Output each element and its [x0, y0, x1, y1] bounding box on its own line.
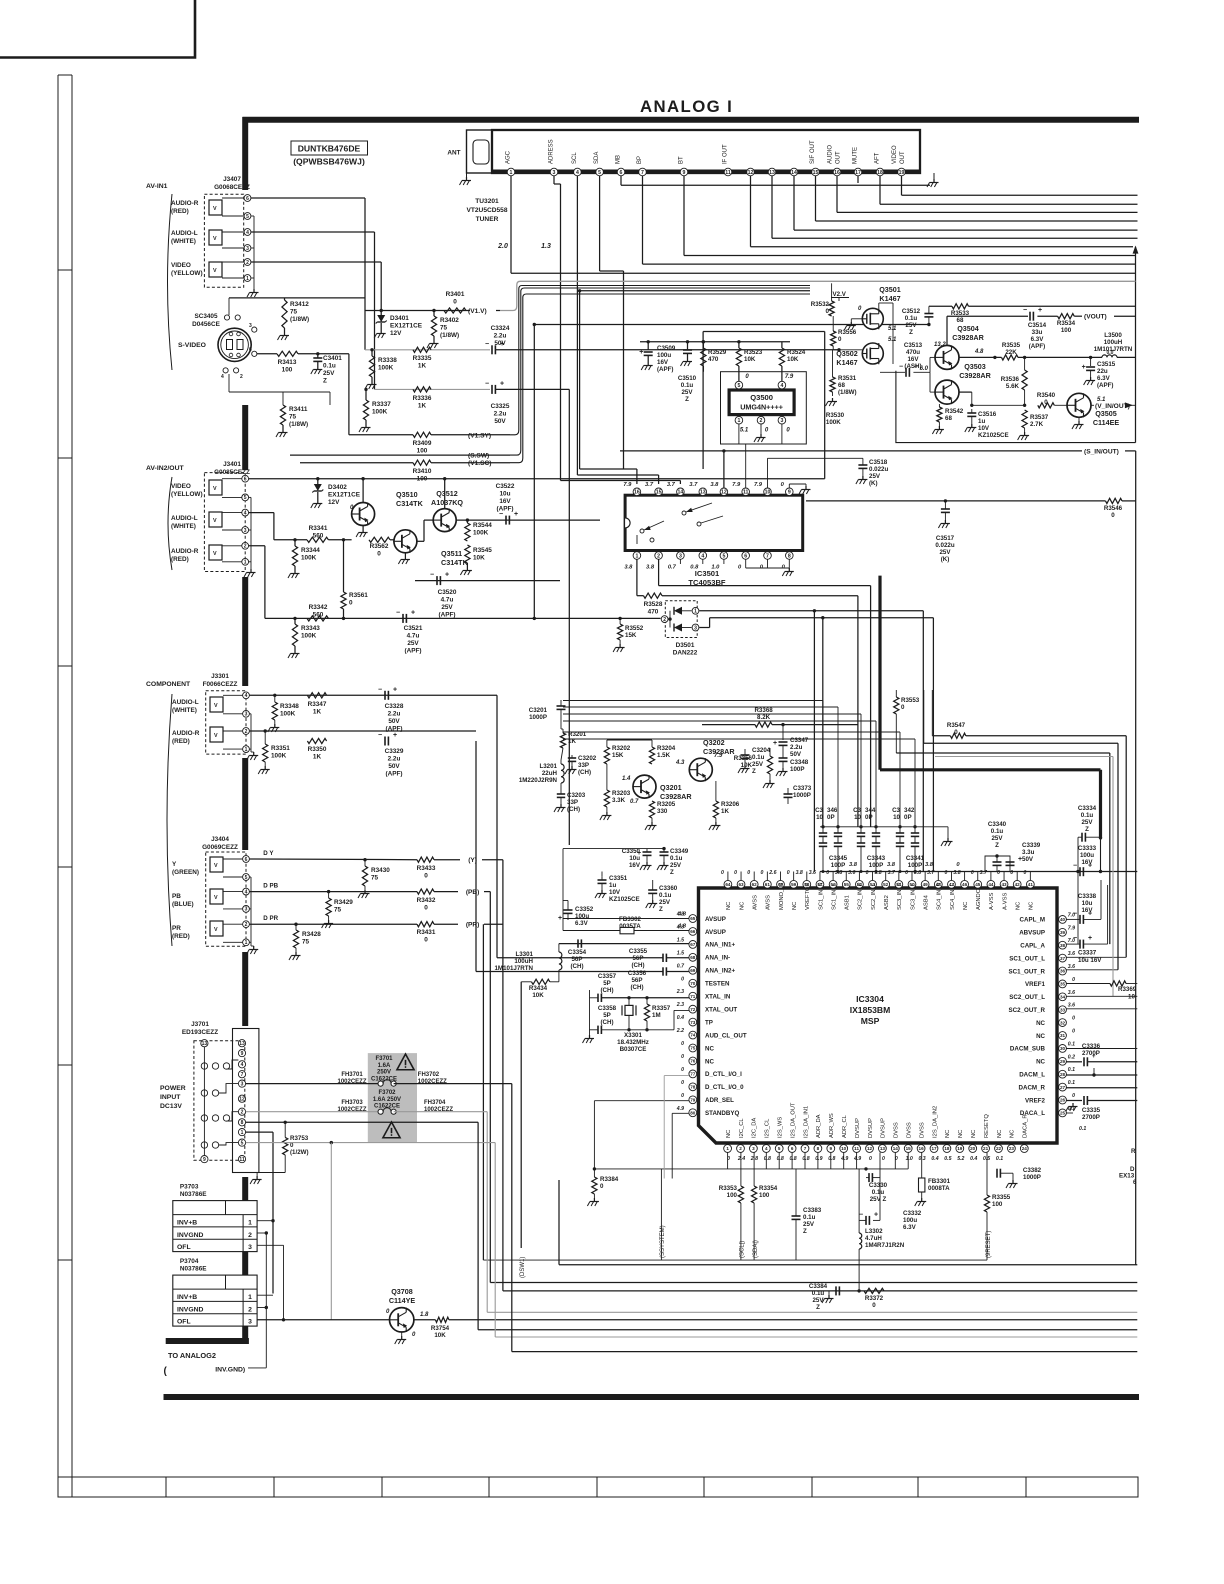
svg-text:C3513: C3513	[904, 342, 923, 349]
svg-text:SC2_IN_L: SC2_IN_L	[871, 882, 877, 910]
svg-text:SC2_OUT_R: SC2_OUT_R	[1009, 1007, 1046, 1014]
svg-text:INVGND: INVGND	[177, 1306, 204, 1313]
svg-text:342: 342	[904, 807, 915, 814]
svg-text:10V: 10V	[609, 889, 621, 896]
svg-text:DACM_L: DACM_L	[1019, 1072, 1045, 1079]
svg-text:22u: 22u	[1097, 368, 1108, 375]
J3701 pin 12	[238, 1095, 245, 1102]
svg-text:2.6: 2.6	[768, 870, 776, 876]
svg-text:Z: Z	[1085, 826, 1089, 833]
resistor R3410 and net V1.SC	[413, 460, 431, 465]
svg-text:R3203: R3203	[612, 790, 631, 797]
svg-text:VIDEO: VIDEO	[171, 483, 191, 490]
wire DACA_L stub	[1066, 1112, 1073, 1114]
IC3501 pin 15	[655, 488, 663, 496]
svg-text:13: 13	[700, 490, 706, 496]
svg-text:POWER: POWER	[160, 1085, 186, 1092]
tuner pin 5 SDA	[596, 168, 604, 176]
resistor R3533	[929, 305, 952, 307]
svg-text:4: 4	[244, 510, 247, 516]
svg-text:42: 42	[1015, 882, 1021, 887]
svg-text:R3338: R3338	[378, 357, 397, 364]
capacitor C3347	[781, 723, 784, 726]
svg-text:19: 19	[957, 1146, 963, 1151]
svg-text:0: 0	[882, 1156, 885, 1162]
IC IC3501 TC4053BF	[625, 495, 803, 550]
svg-text:0: 0	[721, 870, 724, 876]
J3701 pin 9	[238, 1050, 245, 1057]
svg-text:30: 30	[1060, 1046, 1066, 1051]
svg-text:11: 11	[743, 490, 749, 496]
svg-text:2.2u: 2.2u	[494, 411, 507, 418]
svg-text:43: 43	[1001, 882, 1007, 887]
svg-text:+: +	[1038, 307, 1042, 314]
svg-text:0.0: 0.0	[1107, 350, 1114, 356]
IC3304 pin 68 ANA_IN-	[689, 953, 697, 961]
wire	[793, 176, 795, 230]
J3301 pin 3	[243, 710, 250, 717]
J3404 pin 2	[243, 921, 250, 928]
svg-text:5P: 5P	[603, 1012, 611, 1019]
svg-text:(APF): (APF)	[1097, 382, 1114, 389]
svg-text:470: 470	[648, 609, 659, 616]
resistor R3202	[606, 740, 608, 747]
svg-text:(APF): (APF)	[496, 506, 513, 513]
svg-text:39: 39	[1060, 930, 1066, 935]
svg-text:C3204: C3204	[752, 747, 771, 754]
svg-text:4: 4	[780, 383, 783, 389]
svg-text:3: 3	[679, 553, 682, 559]
wire	[836, 176, 838, 212]
svg-text:(RED): (RED)	[171, 556, 189, 563]
ground Q3501 gate	[851, 318, 862, 320]
IC3304 pin 60	[777, 880, 785, 888]
ground right of tuner	[933, 173, 935, 179]
svg-text:C314TK: C314TK	[441, 558, 469, 567]
capacitor C3516	[971, 409, 973, 413]
svg-text:R3351: R3351	[271, 745, 290, 752]
svg-text:0: 0	[377, 551, 381, 558]
svg-text:C3928AR: C3928AR	[660, 792, 692, 801]
wire svideo luma row	[257, 353, 277, 355]
capacitor C3521	[402, 614, 404, 623]
svg-text:33u: 33u	[1032, 329, 1043, 336]
svg-text:2: 2	[240, 374, 243, 380]
wire P3703 row3	[257, 1244, 283, 1246]
J3401 pin 2	[242, 542, 249, 549]
svg-text:330: 330	[657, 808, 668, 815]
svg-text:0.9: 0.9	[815, 1156, 822, 1162]
svg-text:0.1: 0.1	[1068, 1067, 1075, 1073]
svg-text:Q3500: Q3500	[750, 393, 773, 402]
svg-text:(WHITE): (WHITE)	[172, 707, 197, 714]
svg-text:R3534: R3534	[1057, 320, 1076, 327]
svg-text:SC4_IN_L: SC4_IN_L	[950, 882, 956, 910]
IC3304 pin 63	[737, 880, 745, 888]
svg-text:C3330: C3330	[869, 1182, 888, 1189]
svg-text:C3339: C3339	[1022, 842, 1041, 849]
svg-text:0035TA: 0035TA	[619, 923, 641, 930]
svg-text:10: 10	[765, 490, 771, 496]
connector J3407 dashed box	[204, 194, 243, 287]
svg-text:INV+B: INV+B	[177, 1220, 197, 1227]
svg-text:3.8: 3.8	[914, 870, 921, 876]
wire svideo top rail	[228, 298, 230, 315]
svg-text:0.1: 0.1	[996, 1156, 1003, 1162]
wire to V1.SY riser	[348, 354, 350, 435]
capacitor C3350	[562, 849, 564, 931]
svg-text:(CH): (CH)	[630, 984, 643, 991]
resistor R3355	[986, 1152, 988, 1195]
svg-text:C3202: C3202	[578, 755, 597, 762]
svg-text:R3410: R3410	[413, 468, 432, 475]
svg-text:0: 0	[787, 870, 790, 876]
svg-text:R3368: R3368	[754, 707, 773, 714]
resistor R3357	[646, 998, 648, 1004]
svg-text:6.3V: 6.3V	[1031, 336, 1045, 343]
svg-text:AUDIO-R: AUDIO-R	[172, 730, 200, 737]
svg-text:46: 46	[962, 882, 968, 887]
svg-text:C3: C3	[892, 807, 900, 814]
svg-text:344: 344	[865, 807, 876, 814]
connector P3703 table	[173, 1201, 257, 1252]
svg-text:+: +	[1088, 910, 1092, 917]
svg-text:65: 65	[690, 916, 696, 921]
svg-text:22uH: 22uH	[542, 770, 558, 777]
J3407 pin 3	[244, 245, 251, 252]
svg-text:(V1.V): (V1.V)	[468, 308, 487, 315]
thick signal bus L	[878, 576, 881, 770]
svg-text:100K: 100K	[280, 711, 296, 718]
wire SDA to IC3501	[599, 176, 601, 271]
svg-text:100: 100	[417, 448, 428, 455]
svg-text:(VOUT): (VOUT)	[1084, 314, 1107, 321]
IC3304 pin 30 DACM_SUB	[1059, 1045, 1067, 1053]
svg-text:C3340: C3340	[988, 821, 1007, 828]
svg-text:(APF): (APF)	[657, 366, 674, 373]
svg-text:4: 4	[246, 230, 249, 236]
svg-text:6.3V: 6.3V	[1097, 375, 1111, 382]
wire bottom bus 1312	[487, 1311, 1137, 1313]
svg-text:15: 15	[813, 170, 819, 176]
IC3304 pin 75 NC	[689, 1044, 697, 1052]
wire right edge vertical lower	[1135, 451, 1137, 1265]
svg-text:0.8: 0.8	[764, 1156, 771, 1162]
svg-text:8.2K: 8.2K	[757, 714, 771, 721]
wire P3704 row1	[257, 1294, 273, 1296]
svg-text:C314TK: C314TK	[396, 499, 424, 508]
svg-text:80: 80	[690, 1110, 696, 1115]
svg-text:(SCL|): (SCL|)	[740, 1241, 746, 1258]
wire AGC long row	[510, 176, 512, 273]
svg-text:63: 63	[738, 882, 744, 887]
warning triangle 1	[397, 1054, 414, 1070]
svg-text:7: 7	[641, 170, 644, 176]
wire	[771, 176, 773, 238]
svg-text:C3341: C3341	[906, 855, 925, 862]
svg-text:0: 0	[901, 704, 905, 711]
IC3501 pin 10	[764, 488, 772, 496]
svg-text:TP: TP	[705, 1019, 713, 1026]
svg-text:25V: 25V	[670, 862, 682, 869]
svg-text:75: 75	[371, 875, 379, 882]
label DUNTKB476DE	[291, 141, 368, 155]
ground cap row	[947, 827, 949, 838]
svg-text:1: 1	[248, 1294, 252, 1301]
svg-text:R3753: R3753	[290, 1135, 309, 1142]
svg-text:25V: 25V	[939, 549, 951, 556]
svg-text:0.1u: 0.1u	[323, 363, 336, 370]
svg-text:72: 72	[690, 1007, 696, 1012]
svg-text:2.2u: 2.2u	[790, 744, 803, 751]
svg-text:(WHITE): (WHITE)	[171, 523, 196, 530]
svg-text:0.2: 0.2	[1068, 1054, 1075, 1060]
tuner pin 14	[790, 168, 798, 176]
svg-text:0: 0	[826, 870, 829, 876]
svg-text:33P: 33P	[567, 799, 578, 806]
svg-text:3.7: 3.7	[689, 482, 698, 488]
svg-text:1: 1	[726, 1146, 729, 1151]
IC3304 pin 1	[724, 1145, 732, 1153]
svg-text:R3562: R3562	[370, 543, 389, 550]
capacitor C3382	[998, 1152, 1000, 1173]
svg-text:DC13V: DC13V	[160, 1103, 182, 1110]
svg-text:7: 7	[241, 1072, 244, 1078]
svg-text:25V: 25V	[869, 473, 881, 480]
connector J3701 solid box	[233, 1029, 259, 1173]
svg-text:0: 0	[997, 870, 1000, 876]
svg-text:4.8: 4.8	[974, 349, 984, 355]
svg-text:(K): (K)	[869, 480, 878, 487]
resistor R3430	[363, 858, 366, 861]
svg-text:R3428: R3428	[302, 931, 321, 938]
svg-text:(9RESET): (9RESET)	[986, 1231, 992, 1258]
wire audio-L row	[375, 388, 491, 390]
IC3304 pin 33 SC2_OUT_R	[1059, 1006, 1067, 1014]
thick bar end cap	[166, 1338, 249, 1344]
wire SC2 rows	[1066, 995, 1137, 997]
svg-text:C3348: C3348	[790, 759, 809, 766]
svg-text:NC: NC	[726, 1130, 732, 1138]
J3407 pin 4	[244, 229, 251, 236]
J3407 pin 2	[244, 259, 251, 266]
svg-text:7.9: 7.9	[714, 753, 723, 759]
IC3501 pin 16	[633, 488, 641, 496]
svg-text:10: 10	[841, 1146, 847, 1151]
wire IC3501 pin2 row	[658, 560, 660, 586]
bracket AV-IN1	[168, 194, 173, 370]
J3701 pin 13 left	[201, 1040, 208, 1047]
svg-text:19: 19	[899, 170, 905, 176]
svg-text:5: 5	[722, 553, 725, 559]
svg-text:DVSS: DVSS	[894, 1122, 900, 1138]
svg-text:10K: 10K	[744, 356, 756, 363]
svg-text:K1467: K1467	[836, 358, 857, 367]
svg-text:25V: 25V	[659, 899, 671, 906]
svg-text:R3409: R3409	[413, 440, 432, 447]
svg-text:64: 64	[725, 882, 731, 887]
transistor Q3201 C3928AR	[633, 775, 656, 798]
resistor R3528	[644, 593, 663, 598]
inductor L3500	[1102, 355, 1117, 357]
svg-text:SC3_IN_L: SC3_IN_L	[910, 882, 916, 910]
svg-text:Q3510: Q3510	[396, 490, 418, 499]
capacitor C3510	[686, 340, 689, 343]
svg-text:100: 100	[759, 1192, 770, 1199]
svg-text:ED193CEZZ: ED193CEZZ	[182, 1029, 218, 1036]
svg-text:100K: 100K	[826, 419, 841, 426]
svg-text:IX1853BM: IX1853BM	[850, 1005, 891, 1015]
svg-text:C3: C3	[815, 807, 823, 814]
svg-text:A-VSS: A-VSS	[1002, 892, 1008, 910]
svg-text:1M4R7J1R2N: 1M4R7J1R2N	[865, 1242, 905, 1249]
svg-text:0.1: 0.1	[1079, 1126, 1086, 1132]
svg-text:12: 12	[239, 1097, 245, 1103]
svg-text:BP: BP	[637, 156, 643, 164]
svg-text:DACM_SUB: DACM_SUB	[1010, 1046, 1046, 1053]
jack PB blue	[210, 889, 223, 904]
wire audio-L down	[568, 389, 570, 845]
svg-text:R3206: R3206	[721, 801, 740, 808]
svg-text:78: 78	[690, 1085, 696, 1090]
svg-text:56P: 56P	[631, 977, 642, 984]
IC3304 pin 62	[750, 880, 758, 888]
svg-text:+: +	[411, 609, 415, 616]
resistor R3429	[327, 890, 330, 893]
svg-text:C114YE: C114YE	[389, 1296, 416, 1305]
svg-text:1: 1	[246, 276, 249, 282]
svg-text:3.8: 3.8	[887, 862, 896, 868]
capacitor C3509	[647, 342, 649, 350]
svg-text:AV-IN2/OUT: AV-IN2/OUT	[146, 465, 184, 472]
svg-text:(CH): (CH)	[570, 963, 583, 970]
J3701 pin 1	[238, 1129, 245, 1136]
wire pin13 to C3518	[702, 469, 704, 488]
J3701 pin 11	[238, 1156, 245, 1163]
svg-text:(1/2W): (1/2W)	[290, 1149, 309, 1156]
capacitor C3518	[862, 458, 864, 465]
wire PR row	[250, 923, 417, 925]
svg-text:R3429: R3429	[334, 899, 353, 906]
svg-text:5P: 5P	[603, 980, 611, 987]
svg-text:50V: 50V	[1022, 856, 1034, 863]
IC3501 pin 9	[786, 488, 794, 496]
resistor R3561	[342, 617, 345, 620]
svg-text:3.7: 3.7	[645, 482, 654, 488]
svg-text:G0069CEZZ: G0069CEZZ	[202, 844, 238, 851]
svg-text:1: 1	[635, 553, 638, 559]
svg-text:0.7: 0.7	[668, 565, 677, 571]
svg-text:C3352: C3352	[575, 906, 594, 913]
svg-text:−: −	[378, 732, 382, 739]
IC IC3304 IX1853BM MSP outline	[699, 888, 1058, 1143]
wire Y drop	[502, 860, 504, 1291]
wire D3501 pin3 row	[699, 627, 709, 629]
svg-text:R3202: R3202	[612, 745, 631, 752]
svg-text:22K: 22K	[1005, 349, 1017, 356]
svg-text:14: 14	[791, 170, 797, 176]
inductor L3301	[559, 952, 562, 970]
J3701 unconnected pins	[201, 1063, 207, 1069]
transistor Q3502 K1467	[862, 343, 883, 364]
svg-text:0.7: 0.7	[677, 963, 685, 969]
svg-text:4: 4	[221, 374, 224, 380]
svg-text:1: 1	[244, 560, 247, 566]
D3501 pin 3	[692, 624, 699, 631]
transistor Q3501 K1467	[862, 308, 883, 329]
svg-text:0: 0	[600, 1183, 604, 1190]
svg-text:0: 0	[1072, 1029, 1075, 1035]
svg-text:J3407: J3407	[223, 176, 241, 183]
capacitor C3354	[577, 939, 579, 947]
wire IC3501 pins 6-8 ground	[745, 560, 747, 569]
IC3304 pin 47	[948, 880, 956, 888]
svg-text:4: 4	[241, 1062, 244, 1068]
wire Q3503 output	[959, 391, 972, 393]
resistor R3524	[781, 342, 783, 348]
wire AVSUP rows	[563, 918, 695, 920]
svg-text:50V: 50V	[388, 718, 400, 725]
IC3501 pin 6	[742, 552, 750, 560]
svg-text:R3344: R3344	[301, 547, 320, 554]
svg-text:23: 23	[1009, 1146, 1015, 1151]
IC3501 pin 1	[633, 552, 641, 560]
wire bottom bus 1264	[559, 1264, 1137, 1266]
svg-text:0.1: 0.1	[1068, 1041, 1075, 1047]
svg-text:(V1.SY): (V1.SY)	[468, 432, 491, 439]
IC3304 pin 10	[840, 1145, 848, 1153]
IC3304 pin 46	[961, 880, 969, 888]
svg-text:0: 0	[681, 1093, 684, 1099]
svg-text:+: +	[1082, 364, 1086, 371]
svg-text:0: 0	[1111, 512, 1115, 519]
svg-text:560: 560	[313, 612, 324, 619]
svg-text:100u: 100u	[1080, 852, 1094, 859]
IC3304 pin 49	[921, 880, 929, 888]
svg-text:2: 2	[739, 1146, 742, 1151]
resistor R3402	[432, 309, 435, 312]
svg-text:C3336: C3336	[1082, 1043, 1101, 1050]
svg-text:Q3708: Q3708	[391, 1287, 413, 1296]
svg-text:MONO_IN: MONO_IN	[779, 883, 785, 910]
wire pin6 stub to ground rail	[620, 176, 622, 185]
svg-text:R3546: R3546	[1104, 505, 1123, 512]
svg-text:R3523: R3523	[744, 349, 763, 356]
IC3304 pin 44	[987, 880, 995, 888]
svg-text:R3430: R3430	[371, 867, 390, 874]
svg-text:R3401: R3401	[446, 291, 465, 298]
svg-text:(BLUE): (BLUE)	[172, 901, 194, 908]
svg-text:2.2u: 2.2u	[388, 756, 401, 763]
svg-text:Q3511: Q3511	[441, 549, 462, 558]
wire P3704 row2	[257, 1307, 266, 1309]
svg-text:ANALOG I: ANALOG I	[640, 97, 733, 116]
IC3304 pin 5	[775, 1145, 783, 1153]
svg-text:P3704: P3704	[180, 1258, 199, 1265]
resistor R3562	[369, 537, 390, 542]
resistor R3546 row	[806, 500, 1106, 502]
IC3304 pin 72 XTAL_OUT	[689, 1005, 697, 1013]
svg-text:16V: 16V	[907, 356, 919, 363]
IC3304 pin 56	[829, 880, 837, 888]
J3701 pin 2	[238, 1108, 245, 1115]
connector J3404 dashed box	[206, 852, 246, 946]
svg-text:N03786E: N03786E	[180, 1266, 207, 1273]
svg-text:Z: Z	[995, 842, 999, 849]
svg-text:3.8: 3.8	[925, 862, 934, 868]
svg-text:C1622CE: C1622CE	[374, 1104, 400, 1110]
bracket AV-IN2	[168, 477, 172, 570]
